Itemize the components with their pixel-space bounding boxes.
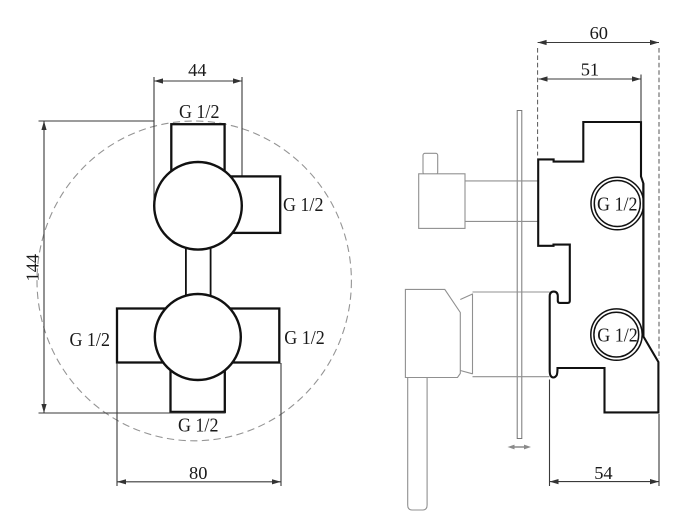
svg-text:44: 44 bbox=[188, 60, 206, 80]
svg-text:54: 54 bbox=[594, 463, 612, 483]
svg-text:G 1/2: G 1/2 bbox=[597, 325, 638, 346]
svg-text:G 1/2: G 1/2 bbox=[179, 102, 220, 123]
svg-text:144: 144 bbox=[23, 254, 43, 282]
svg-text:51: 51 bbox=[581, 60, 599, 80]
svg-text:G 1/2: G 1/2 bbox=[597, 194, 638, 215]
svg-text:G 1/2: G 1/2 bbox=[284, 328, 325, 349]
svg-text:G 1/2: G 1/2 bbox=[178, 416, 219, 437]
svg-text:60: 60 bbox=[590, 23, 608, 43]
svg-text:G 1/2: G 1/2 bbox=[283, 195, 324, 216]
svg-text:G 1/2: G 1/2 bbox=[69, 330, 110, 351]
svg-text:80: 80 bbox=[189, 463, 207, 483]
